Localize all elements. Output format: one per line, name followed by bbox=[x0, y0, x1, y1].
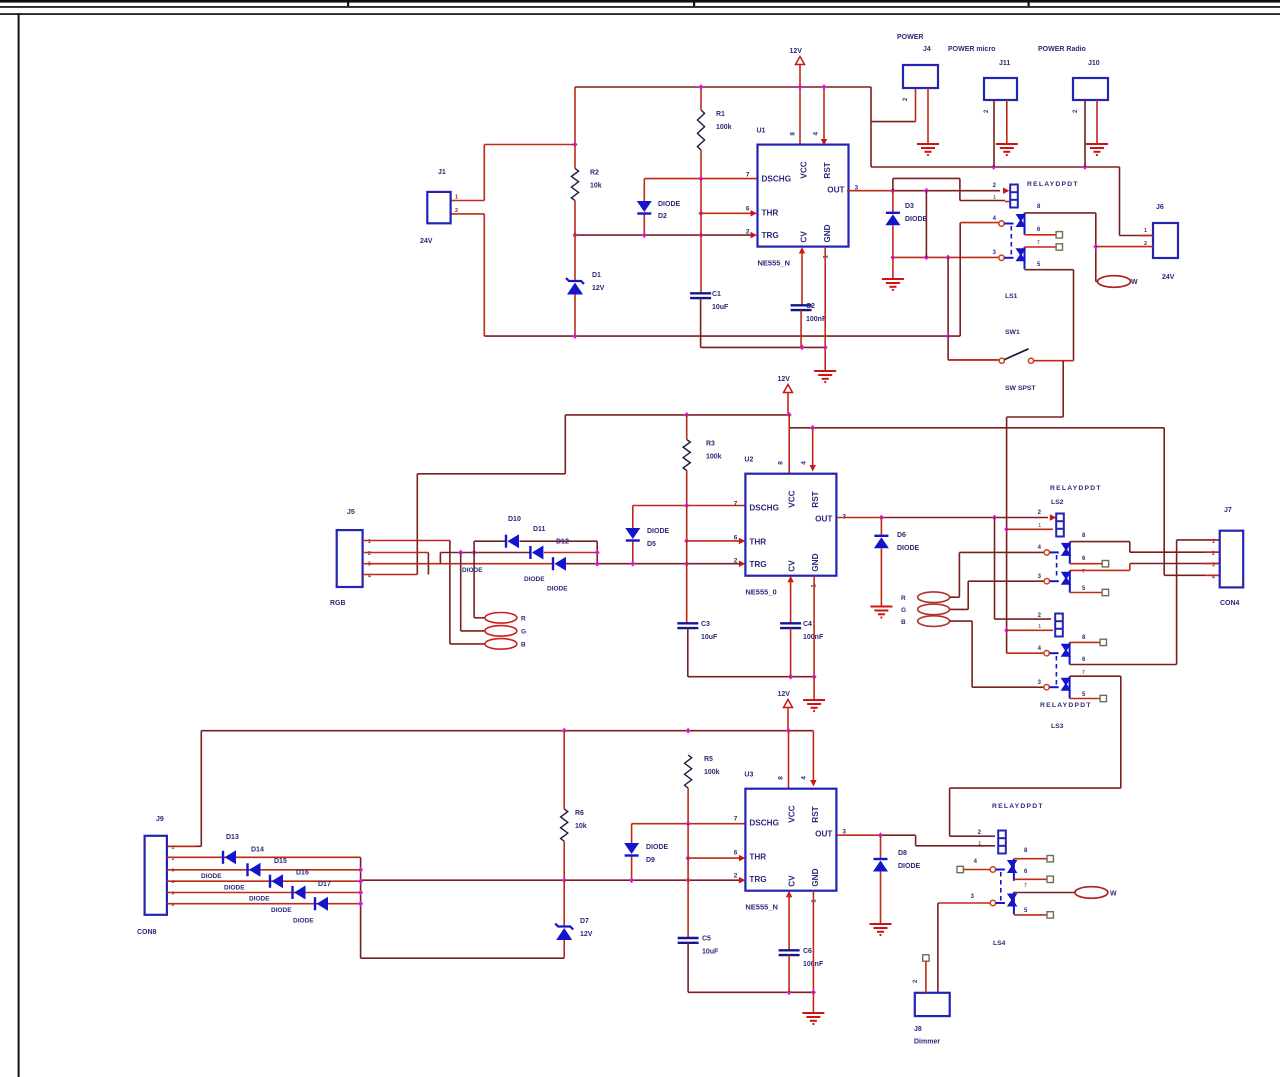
diode D16 bbox=[293, 886, 306, 900]
relay link LS4 bbox=[1000, 872, 1002, 901]
wire gnd lead U1 bbox=[824, 347, 826, 371]
svg-text:8: 8 bbox=[777, 776, 784, 780]
wire LS3 throw6 bbox=[1070, 540, 1220, 665]
wire pin4 stub bbox=[960, 222, 999, 224]
wire LS4 pin4 stub bbox=[963, 869, 990, 871]
svg-text:RST: RST bbox=[811, 806, 820, 822]
connector J9 bbox=[145, 836, 167, 915]
wire OUT row U3 bbox=[837, 834, 881, 836]
wire J9 pin3 row bbox=[167, 869, 361, 871]
svg-text:NE555_0: NE555_0 bbox=[745, 588, 776, 597]
svg-text:POWER: POWER bbox=[897, 34, 923, 41]
wire pin1 to lamp B bbox=[450, 541, 485, 644]
wire pin4 feed bbox=[959, 223, 961, 337]
svg-text:DSCHG: DSCHG bbox=[749, 504, 779, 513]
svg-text:VCC: VCC bbox=[787, 490, 796, 507]
svg-text:4: 4 bbox=[172, 879, 175, 885]
diode D15 bbox=[270, 874, 283, 888]
svg-text:R6: R6 bbox=[575, 810, 584, 817]
svg-text:U3: U3 bbox=[744, 772, 753, 779]
svg-text:D10: D10 bbox=[508, 516, 521, 523]
wire LS1 throw8 bbox=[1025, 213, 1098, 282]
svg-text:RELAYDPDT: RELAYDPDT bbox=[992, 803, 1044, 810]
wire LS2 throw6 bbox=[1070, 563, 1102, 565]
capacitor C5 bbox=[678, 938, 699, 943]
svg-text:Dimmer: Dimmer bbox=[914, 1039, 940, 1046]
relay coil LS2 coil bbox=[1056, 514, 1064, 537]
diode D14 bbox=[248, 863, 261, 877]
junction LS2 pin1 node bbox=[1004, 526, 1009, 532]
junction DSCHG node U2 bbox=[684, 503, 689, 509]
wire RST bus mid bbox=[789, 427, 1164, 429]
wire J5 pin1 row bbox=[363, 540, 450, 542]
svg-text:1: 1 bbox=[1038, 624, 1041, 630]
svg-text:1: 1 bbox=[455, 195, 458, 201]
wire 12V to top bus bbox=[799, 65, 801, 88]
svg-text:DIODE: DIODE bbox=[524, 576, 545, 583]
svg-text:J9: J9 bbox=[156, 816, 164, 823]
junction mid bus R3 bbox=[684, 412, 689, 418]
svg-text:J10: J10 bbox=[1088, 60, 1100, 67]
junction GND node U2 bbox=[812, 674, 817, 680]
svg-text:10uF: 10uF bbox=[702, 949, 719, 956]
wire C6 bottom bbox=[788, 955, 790, 992]
wire DSCHG row U1 bbox=[644, 178, 757, 180]
diode D17 bbox=[315, 897, 328, 911]
wire bus to J6 pin1 bbox=[1120, 167, 1154, 236]
wire D2 bottom lead bbox=[643, 215, 645, 236]
wire CV stub U3 bbox=[786, 891, 792, 898]
svg-text:24V: 24V bbox=[420, 238, 433, 245]
resistor R3 bbox=[683, 440, 690, 471]
svg-text:2: 2 bbox=[1212, 551, 1215, 557]
wire J4 pin2 stub bbox=[915, 88, 917, 122]
wire DSCHG row U3 bbox=[632, 823, 746, 825]
power symbol 12V supply 3 bbox=[784, 700, 793, 708]
svg-text:RELAYDPDT: RELAYDPDT bbox=[1050, 485, 1102, 492]
wire GND stub U1 bbox=[824, 247, 826, 347]
svg-text:POWER micro: POWER micro bbox=[948, 46, 995, 53]
svg-text:6: 6 bbox=[746, 206, 750, 213]
wire LS3 pin4 row bbox=[1007, 652, 1044, 654]
svg-text:6: 6 bbox=[734, 850, 738, 857]
svg-text:1: 1 bbox=[993, 195, 996, 201]
wire C2 bottom bbox=[800, 310, 802, 347]
svg-text:C4: C4 bbox=[803, 621, 812, 628]
junction merge 552 bbox=[595, 550, 600, 556]
terminal LS1 t6 bbox=[1056, 232, 1062, 238]
wire THR row U3 bbox=[688, 857, 739, 859]
terminal LS2 t5 bbox=[1102, 589, 1108, 595]
svg-text:VCC: VCC bbox=[787, 805, 796, 822]
wire THR row U1 bbox=[701, 212, 751, 214]
svg-text:CON4: CON4 bbox=[1220, 600, 1240, 607]
wire J9 bottom bus bbox=[361, 857, 565, 958]
relay contact LS3 contact B bbox=[1044, 676, 1071, 698]
svg-text:GND: GND bbox=[811, 868, 820, 886]
wire LS4 throw5 bbox=[1014, 914, 1047, 916]
svg-text:D17: D17 bbox=[318, 881, 331, 888]
ground U1 ground bbox=[814, 371, 836, 383]
diode D12 bbox=[553, 557, 566, 571]
wire pin3 step bbox=[439, 553, 441, 564]
svg-text:LS1: LS1 bbox=[1005, 293, 1018, 300]
wire J9 pin5 row bbox=[167, 892, 361, 894]
wire J4 pin2 lead bbox=[871, 121, 916, 123]
junction R1 top bbox=[699, 84, 704, 90]
svg-text:R: R bbox=[901, 595, 906, 602]
wire lampG2 to LS2 pin3 bbox=[950, 581, 1045, 609]
svg-text:100k: 100k bbox=[704, 769, 720, 776]
junction TRG-R2 node bbox=[573, 232, 578, 238]
border left line bbox=[18, 13, 20, 1077]
wire D10 row bbox=[474, 541, 506, 552]
svg-text:CV: CV bbox=[787, 560, 796, 572]
svg-text:W: W bbox=[1131, 279, 1138, 286]
wire D1 top lead bbox=[574, 235, 576, 280]
wire U3 vert to C5 bbox=[687, 824, 689, 938]
wire J9 pin2 row bbox=[167, 856, 361, 858]
wire OUT jog to coil pin1 bbox=[893, 178, 1005, 200]
svg-text:J5: J5 bbox=[347, 509, 355, 516]
svg-text:10uF: 10uF bbox=[712, 304, 729, 311]
svg-text:2: 2 bbox=[455, 208, 458, 214]
wire RST stub U2 bbox=[812, 428, 814, 467]
svg-text:R3: R3 bbox=[706, 441, 715, 448]
svg-text:CON8: CON8 bbox=[137, 929, 157, 936]
svg-text:NE555_N: NE555_N bbox=[758, 259, 791, 268]
wire LS1 throw5 bbox=[1025, 270, 1074, 361]
junction power bus a bbox=[991, 164, 996, 170]
wire top bus bbox=[575, 86, 871, 88]
connector J5 bbox=[337, 530, 363, 587]
indicator lamp G bbox=[485, 626, 517, 637]
terminal LS4 common4 term bbox=[957, 866, 963, 872]
svg-text:7: 7 bbox=[734, 501, 738, 508]
indicator lamp R2 bbox=[918, 592, 950, 603]
relay link LS1 bbox=[1010, 226, 1012, 255]
wire mid bus to J5 pin1 bbox=[417, 415, 565, 575]
wire D7 bottom lead bbox=[563, 940, 565, 958]
ground J10 ground bbox=[1086, 144, 1108, 156]
connector J11 bbox=[984, 78, 1017, 100]
svg-text:DIODE: DIODE bbox=[462, 567, 483, 574]
svg-text:7: 7 bbox=[1037, 240, 1040, 246]
svg-text:OUT: OUT bbox=[815, 830, 832, 839]
junction LS3 pin1 node bbox=[1004, 627, 1009, 633]
pin numbers U3 bbox=[734, 776, 847, 903]
ground D8 ground bbox=[870, 924, 892, 936]
wire J4 pin1 stub bbox=[927, 88, 929, 144]
junction TRG-D2 node bbox=[642, 232, 647, 238]
wire D8 bottom lead bbox=[880, 872, 882, 925]
op-amp/timer U3 bbox=[745, 789, 836, 891]
svg-text:D2: D2 bbox=[658, 213, 667, 220]
wire U2 vert to C3 bbox=[686, 506, 688, 624]
wire U2 gnd lead bbox=[813, 677, 815, 700]
capacitor C4 bbox=[780, 623, 801, 628]
svg-text:D6: D6 bbox=[897, 532, 906, 539]
lamp W lamp 1 bbox=[1098, 276, 1131, 288]
resistor R6 bbox=[561, 809, 568, 841]
svg-text:G: G bbox=[521, 629, 526, 636]
wire THR row U2 bbox=[687, 540, 739, 542]
svg-text:CV: CV bbox=[787, 875, 796, 887]
wire D8 top lead bbox=[880, 835, 882, 858]
relay contact LS4 contact B bbox=[990, 892, 1017, 914]
switch SW1 bbox=[999, 358, 1004, 363]
svg-text:B: B bbox=[521, 642, 526, 649]
wire D2 top lead bbox=[643, 179, 645, 201]
svg-text:U1: U1 bbox=[757, 128, 766, 135]
wire RST stub U1 bbox=[823, 87, 825, 141]
svg-text:D9: D9 bbox=[646, 857, 655, 864]
wire D9 top lead bbox=[631, 824, 633, 843]
wire R1 bottom lead bbox=[700, 150, 702, 179]
relay coil LS1 coil bbox=[1010, 185, 1018, 208]
svg-text:4: 4 bbox=[813, 132, 820, 136]
svg-text:DIODE: DIODE bbox=[224, 885, 245, 892]
svg-text:DIODE: DIODE bbox=[658, 201, 681, 208]
wire LS4 throw6 bbox=[1014, 878, 1047, 880]
relay contact LS2 contact A bbox=[1044, 542, 1071, 564]
junction TRG-D9 node bbox=[629, 877, 634, 883]
terminal LS1 t7 bbox=[1056, 244, 1062, 250]
svg-text:1: 1 bbox=[1212, 539, 1215, 545]
wire C1 bottom bbox=[701, 298, 826, 347]
zener D1 bbox=[566, 278, 584, 295]
wire lamp G drop bbox=[461, 553, 485, 631]
wire J6 pin2 stub bbox=[1096, 246, 1153, 248]
indicator lamp B2 bbox=[918, 616, 950, 627]
wire power bus 12V bbox=[871, 166, 1120, 168]
junction common row a bbox=[890, 255, 895, 261]
lamp W lamp 2 bbox=[1075, 887, 1108, 899]
wire D9 bottom lead bbox=[631, 857, 633, 881]
svg-text:24V: 24V bbox=[1162, 274, 1175, 281]
svg-text:THR: THR bbox=[749, 538, 766, 547]
terminal J8 pin2 term bbox=[923, 955, 929, 961]
wire J7 pin4 stub bbox=[1205, 574, 1220, 576]
junction bus336 node bbox=[946, 333, 951, 339]
svg-text:8: 8 bbox=[790, 132, 797, 136]
relay link LS3 bbox=[1055, 656, 1057, 685]
wire J6 pin1 stub bbox=[1140, 235, 1153, 237]
wire D11 out bbox=[544, 552, 597, 554]
svg-text:OUT: OUT bbox=[827, 186, 844, 195]
wire R2 column bbox=[574, 87, 576, 168]
svg-text:6: 6 bbox=[734, 535, 738, 542]
junction THR node U2 bbox=[684, 538, 689, 544]
wire R3 top lead bbox=[686, 415, 688, 440]
wire DSCHG row U2 bbox=[633, 505, 746, 507]
svg-text:D8: D8 bbox=[898, 850, 907, 857]
junction bottom bus D1 bbox=[573, 333, 578, 339]
relay coil LS3 coil bbox=[1055, 614, 1063, 637]
wire CV stub U2 bbox=[787, 576, 793, 583]
diode D13 bbox=[223, 850, 236, 864]
svg-text:RST: RST bbox=[823, 162, 832, 178]
svg-text:1: 1 bbox=[172, 845, 175, 851]
junction RST node U2 bbox=[810, 425, 815, 431]
svg-text:12V: 12V bbox=[580, 931, 593, 938]
relay contact LS1 contact A bbox=[999, 213, 1026, 235]
svg-text:C6: C6 bbox=[803, 948, 812, 955]
svg-text:1: 1 bbox=[1038, 523, 1041, 529]
junction TRG-D5 node bbox=[630, 561, 635, 567]
relay contact LS3 contact A bbox=[1044, 642, 1071, 664]
junction DSCHG node U3 bbox=[686, 821, 691, 827]
wire LS1 throw7 bbox=[1025, 246, 1057, 248]
wire VCC drop U2 bbox=[788, 415, 790, 474]
wire R2 to TRG bbox=[574, 201, 576, 236]
wire SW1 to relays bbox=[1007, 361, 1064, 654]
diode D11 bbox=[530, 546, 543, 560]
ground U2 ground bbox=[803, 700, 825, 712]
svg-text:D5: D5 bbox=[647, 541, 656, 548]
wire J1 pin2 route bbox=[451, 214, 485, 336]
svg-text:TRG: TRG bbox=[749, 875, 766, 884]
svg-text:1: 1 bbox=[978, 841, 981, 847]
svg-text:7: 7 bbox=[1024, 883, 1027, 889]
wire R1 top lead bbox=[700, 87, 702, 110]
wire VCC drop U3 bbox=[788, 731, 790, 789]
svg-text:4: 4 bbox=[800, 776, 807, 780]
wire LS2 coil pin1 stub bbox=[1007, 528, 1053, 530]
wire D3 top lead bbox=[892, 191, 894, 212]
wire D5 top lead bbox=[632, 506, 634, 529]
wire J10 pin1 stub bbox=[1096, 100, 1098, 144]
svg-text:DIODE: DIODE bbox=[201, 873, 222, 880]
svg-text:NE555_N: NE555_N bbox=[745, 903, 778, 912]
terminal LS4 t8 bbox=[1047, 856, 1053, 862]
junction DSCHG node U1 bbox=[699, 176, 704, 182]
svg-text:10uF: 10uF bbox=[701, 634, 718, 641]
svg-text:12V: 12V bbox=[778, 376, 791, 383]
wire LS3 throw5 bbox=[1070, 698, 1101, 700]
wire LS1 coil pin1 stub bbox=[1005, 201, 1009, 203]
wire J5 pin3 row bbox=[363, 563, 553, 565]
diode D8 bbox=[873, 859, 888, 872]
svg-text:7: 7 bbox=[1082, 670, 1085, 676]
svg-text:DIODE: DIODE bbox=[271, 907, 292, 914]
wire U3 gnd lead bbox=[812, 992, 814, 1013]
junction GND node U1 bbox=[823, 345, 828, 351]
indicator lamp G2 bbox=[918, 604, 950, 615]
relay contact LS4 contact A bbox=[990, 859, 1017, 881]
diode D2 bbox=[637, 201, 652, 214]
junction merge r3 bbox=[358, 867, 363, 873]
junction OUT D8 node bbox=[878, 832, 883, 838]
svg-text:C2: C2 bbox=[806, 303, 815, 310]
wire D3 ground lead bbox=[892, 257, 894, 279]
svg-text:TRG: TRG bbox=[749, 560, 766, 569]
op-amp/timer U2 bbox=[745, 474, 836, 576]
resistor R5 bbox=[685, 755, 692, 788]
terminal LS4 t6 bbox=[1047, 876, 1053, 882]
svg-text:D1: D1 bbox=[592, 272, 601, 279]
connector J7 bbox=[1220, 531, 1244, 588]
svg-text:DIODE: DIODE bbox=[905, 216, 928, 223]
wire J8 pin2 stub bbox=[925, 961, 927, 993]
junction TRG-R3 node bbox=[684, 561, 689, 567]
wire D1 bottom lead bbox=[574, 295, 576, 337]
junction merge r4 bbox=[358, 878, 363, 884]
svg-text:C5: C5 bbox=[702, 936, 711, 943]
junction OUT node x926 bbox=[924, 188, 929, 194]
svg-text:4: 4 bbox=[1212, 575, 1215, 581]
svg-text:VCC: VCC bbox=[800, 161, 809, 178]
junction TRG-R5 node bbox=[686, 877, 691, 883]
junction THR node U1 bbox=[699, 210, 704, 216]
svg-text:R2: R2 bbox=[590, 169, 599, 176]
svg-text:R5: R5 bbox=[704, 756, 713, 763]
resistor R1 bbox=[697, 110, 704, 150]
svg-text:CV: CV bbox=[800, 231, 809, 243]
wire D10 out bbox=[520, 541, 598, 564]
wire bus to J4 drop bbox=[870, 87, 872, 167]
wire D6 bottom lead bbox=[880, 548, 882, 606]
wire J11 pin1 stub bbox=[1006, 100, 1008, 144]
svg-text:THR: THR bbox=[762, 209, 779, 218]
indicator lamp R bbox=[485, 613, 517, 624]
svg-text:RGB: RGB bbox=[330, 600, 346, 607]
wire LS2 throw5 bbox=[1070, 592, 1102, 594]
wire pin2 step bbox=[427, 553, 429, 575]
ground D6 ground bbox=[870, 607, 892, 619]
zener D7 bbox=[555, 924, 573, 941]
wire x926 link bbox=[925, 191, 927, 258]
svg-text:SW SPST: SW SPST bbox=[1005, 385, 1036, 392]
wire C3 bottom bbox=[688, 628, 814, 677]
svg-text:R1: R1 bbox=[716, 111, 725, 118]
svg-text:5: 5 bbox=[172, 891, 175, 897]
svg-text:D11: D11 bbox=[533, 526, 546, 533]
capacitor C3 bbox=[677, 623, 698, 628]
wire LS2 throw8 bbox=[1070, 542, 1220, 553]
junction OUT D6 node bbox=[879, 515, 884, 521]
wire LS3 coil pin1 stub bbox=[1007, 629, 1053, 631]
terminal LS2 t6 bbox=[1102, 561, 1108, 567]
svg-text:J8: J8 bbox=[914, 1026, 922, 1033]
wire C4 bottom bbox=[790, 628, 792, 677]
wire LS1 throw6 bbox=[1025, 234, 1057, 236]
wire VCC stub U1 bbox=[799, 87, 801, 145]
svg-text:7: 7 bbox=[734, 816, 738, 823]
svg-text:J1: J1 bbox=[438, 169, 446, 176]
diode D3 bbox=[885, 213, 900, 226]
wire bus to J9 pin1 bbox=[167, 731, 201, 847]
svg-text:3: 3 bbox=[172, 868, 175, 874]
svg-text:THR: THR bbox=[749, 853, 766, 862]
wire LS4 throw7 bbox=[1014, 892, 1075, 894]
svg-text:B: B bbox=[901, 619, 906, 626]
ground D3 ground bbox=[882, 279, 904, 291]
wire OUT row U1 bbox=[847, 190, 893, 192]
wire lamp R drop bbox=[474, 553, 485, 618]
wire LS3 throw7 bbox=[950, 676, 1121, 836]
junction merge r6 bbox=[358, 901, 363, 907]
wire J5 pin2 row bbox=[363, 552, 429, 554]
wire R3 bottom lead bbox=[686, 471, 688, 506]
svg-text:J7: J7 bbox=[1224, 507, 1232, 514]
wire 12V2 stem bbox=[787, 393, 789, 415]
wire row 552 mid bbox=[440, 552, 530, 554]
wire J7 pin1 stub bbox=[1205, 539, 1220, 541]
pin numbers U1 bbox=[746, 132, 859, 259]
junction C4 bus node bbox=[788, 674, 793, 680]
svg-text:D14: D14 bbox=[251, 847, 264, 854]
